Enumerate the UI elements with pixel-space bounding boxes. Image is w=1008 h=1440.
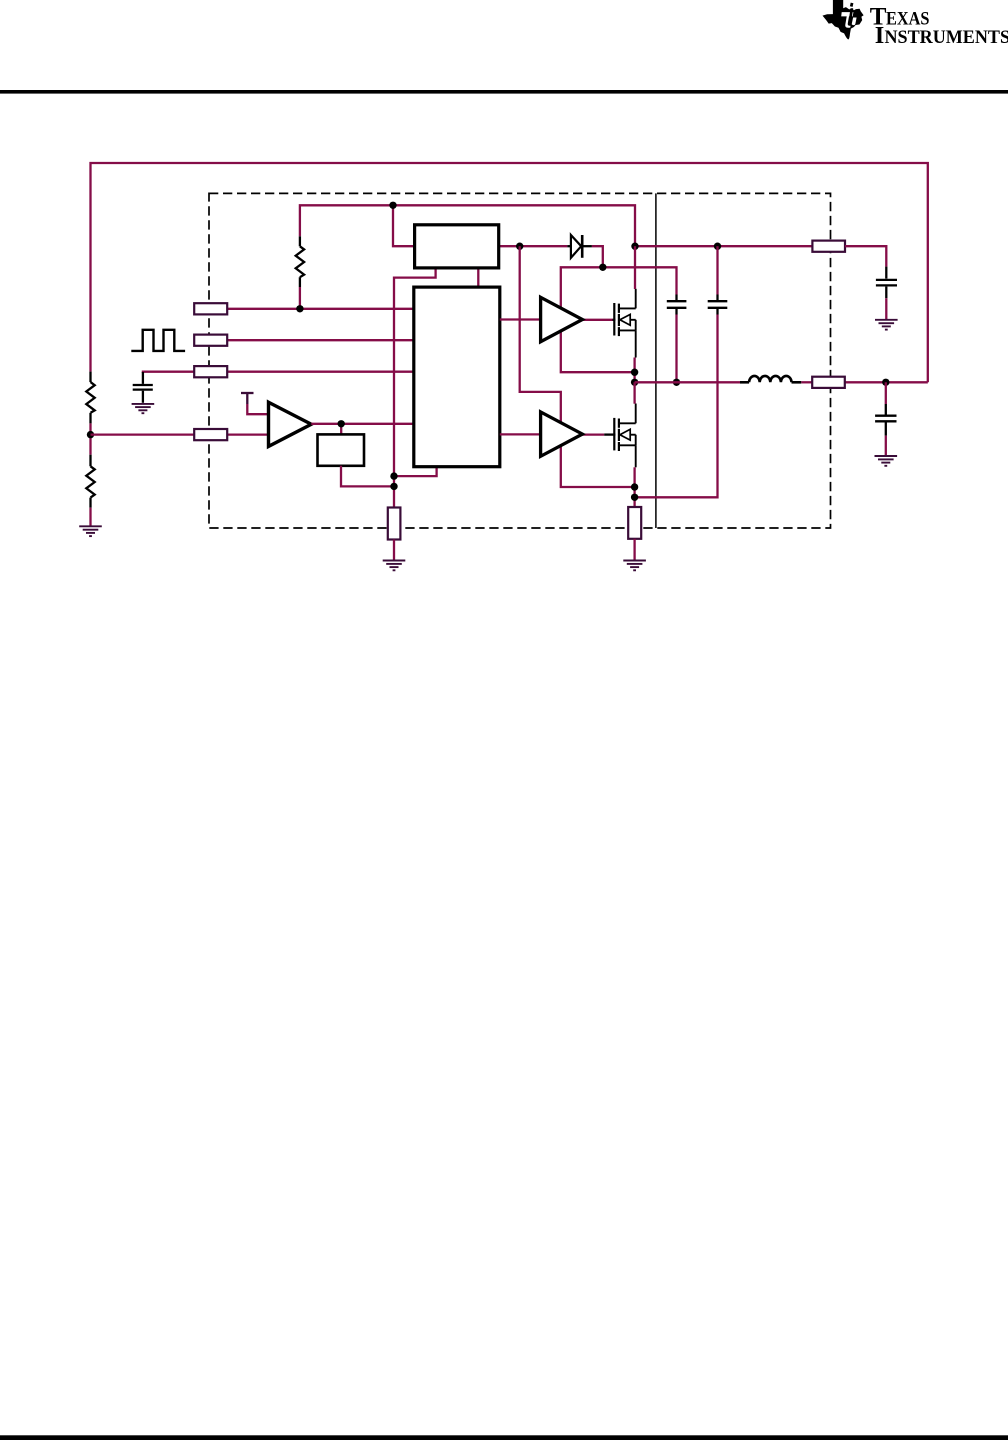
high side gate driver U1a xyxy=(500,297,635,372)
clock squarewave symbol xyxy=(131,330,185,351)
wire: R3 to row1 xyxy=(299,287,301,309)
wire: comp node down to comp box xyxy=(340,424,342,435)
pin box pgnd bottom xyxy=(628,507,641,539)
pin box row3 xyxy=(194,366,227,377)
wire: output cap to ground xyxy=(885,436,887,456)
driver triangle U1a xyxy=(541,297,583,341)
svg-text:I: I xyxy=(875,22,885,49)
pin box row4 xyxy=(194,429,227,440)
wire: q1 drain up to vin xyxy=(634,246,636,289)
controller block xyxy=(414,287,500,467)
wire: regulator bottom left pin long sense line xyxy=(394,268,436,508)
node switch-driver dot xyxy=(631,369,638,376)
ground G2 below divider xyxy=(79,526,102,536)
driver triangle U1b xyxy=(541,412,583,456)
node row1 dot xyxy=(296,305,303,312)
wire: input cap to ground xyxy=(885,298,887,319)
node boot dot xyxy=(599,264,606,271)
wire: high driver lower rail to switch node xyxy=(561,331,635,372)
capacitor C2 boot xyxy=(667,295,687,315)
wire: low driver output to gate xyxy=(582,433,604,435)
resistor R2 lower feedback xyxy=(86,455,94,508)
regulator block xyxy=(415,225,499,268)
internal divider line xyxy=(655,193,657,528)
diode D1 boot xyxy=(567,235,592,258)
capacitor C5 output xyxy=(875,404,896,436)
pin box VOUT right xyxy=(812,377,845,388)
wire: comp box bottom to sense line xyxy=(341,466,394,487)
transistor Q2 low side xyxy=(614,404,635,468)
wire: outer top feedback rail xyxy=(91,163,928,382)
wire: top internal rail xyxy=(300,205,635,246)
node boot cap dot xyxy=(673,379,680,386)
wire: row3 pin to controller xyxy=(227,371,414,373)
wire: switch node to inductor xyxy=(635,381,740,383)
wire: q1 source to switch node xyxy=(633,358,635,383)
wire: controller to high driver input xyxy=(500,318,541,320)
wire: vin rail right xyxy=(635,245,812,247)
ground G1 below C1 xyxy=(132,404,155,413)
transistor Q1 high side xyxy=(614,289,635,358)
node vin-cap dot xyxy=(714,243,721,250)
wire: row3 pin to soft start cap xyxy=(143,372,194,373)
wire: regulator block feed from rail xyxy=(393,205,415,246)
op-amp error amplifier xyxy=(269,402,312,446)
header rule xyxy=(0,90,1008,94)
wire: regulator bottom right pin to controller top xyxy=(477,268,479,287)
pin box row1 xyxy=(194,303,227,314)
wire: q2 drain up to switch node xyxy=(633,382,635,403)
inductor L1 xyxy=(740,376,801,382)
node comp dot xyxy=(338,420,345,427)
wire: regulator output to boot diode node xyxy=(499,245,568,247)
resistor R1 upper feedback xyxy=(86,372,94,424)
node sense dot lower xyxy=(390,483,397,490)
ground G6 output cap xyxy=(875,456,898,466)
TI logo texas map xyxy=(823,0,864,39)
wire: inductor to out pin xyxy=(801,381,812,383)
wire: row1 pin to controller xyxy=(227,308,414,310)
wire: output node to right rail xyxy=(845,381,928,383)
footer rule xyxy=(0,1435,1008,1440)
node vin-drain dot xyxy=(631,243,638,250)
capacitor C1 soft start xyxy=(133,372,153,403)
pin box sense bottom left xyxy=(388,508,401,540)
node FB dot xyxy=(87,431,94,438)
wire: error amp output to controller xyxy=(311,423,414,425)
wire: input cap vertical xyxy=(716,246,718,294)
low side gate driver U1b xyxy=(500,412,635,487)
capacitor C3 vin local xyxy=(708,295,728,315)
wire: row2 pin to controller xyxy=(227,339,414,341)
wire: boot cap to switch node xyxy=(675,315,677,383)
node vreg dot xyxy=(516,243,523,250)
wire: low driver lower rail to source xyxy=(561,446,635,487)
wire: pgnd pin to ground xyxy=(633,539,635,560)
wire: R2 to ground xyxy=(89,508,91,526)
wire: row4 pin to error amp xyxy=(227,433,268,435)
ground G5 input cap xyxy=(875,320,898,330)
svg-text:NSTRUMENTS: NSTRUMENTS xyxy=(885,27,1008,48)
wire: boot node to high driver supply xyxy=(561,267,677,308)
pin box VIN right xyxy=(812,241,845,252)
capacitor C4 input xyxy=(876,267,897,299)
node vout dot xyxy=(882,379,889,386)
node rail dot xyxy=(389,202,396,209)
node driver-source dot xyxy=(631,483,638,490)
wire: FB node to pin box 4 xyxy=(91,433,195,435)
compensation box xyxy=(318,434,365,465)
wire: vin pin to input cap xyxy=(845,246,886,266)
ground G4 pgnd xyxy=(623,561,646,571)
node sense dot upper xyxy=(390,472,397,479)
pin box row2 xyxy=(194,335,227,346)
wire: high driver output to gate xyxy=(582,319,612,321)
wire: c3 bottom to power ground xyxy=(635,315,718,498)
wire: q2 source down to pgnd xyxy=(633,467,635,507)
wire: vreg down to low side driver supply xyxy=(520,246,561,423)
wire: R1 to R2 / FB node xyxy=(89,423,91,454)
wire: vout down to output cap xyxy=(885,382,887,404)
resistor R3 internal pullup xyxy=(296,236,304,287)
wire: sense pin to ground xyxy=(393,540,395,561)
wire: diode to boot node xyxy=(592,246,603,267)
ground G3 sense xyxy=(383,561,406,571)
wire: controller to low driver input xyxy=(500,433,541,435)
IC dashed boundary box xyxy=(209,193,831,528)
reference T symbol xyxy=(241,393,269,414)
wire: controller bottom pin link xyxy=(394,467,437,476)
node pgnd dot xyxy=(631,494,638,501)
node switch rail dot xyxy=(631,379,638,386)
